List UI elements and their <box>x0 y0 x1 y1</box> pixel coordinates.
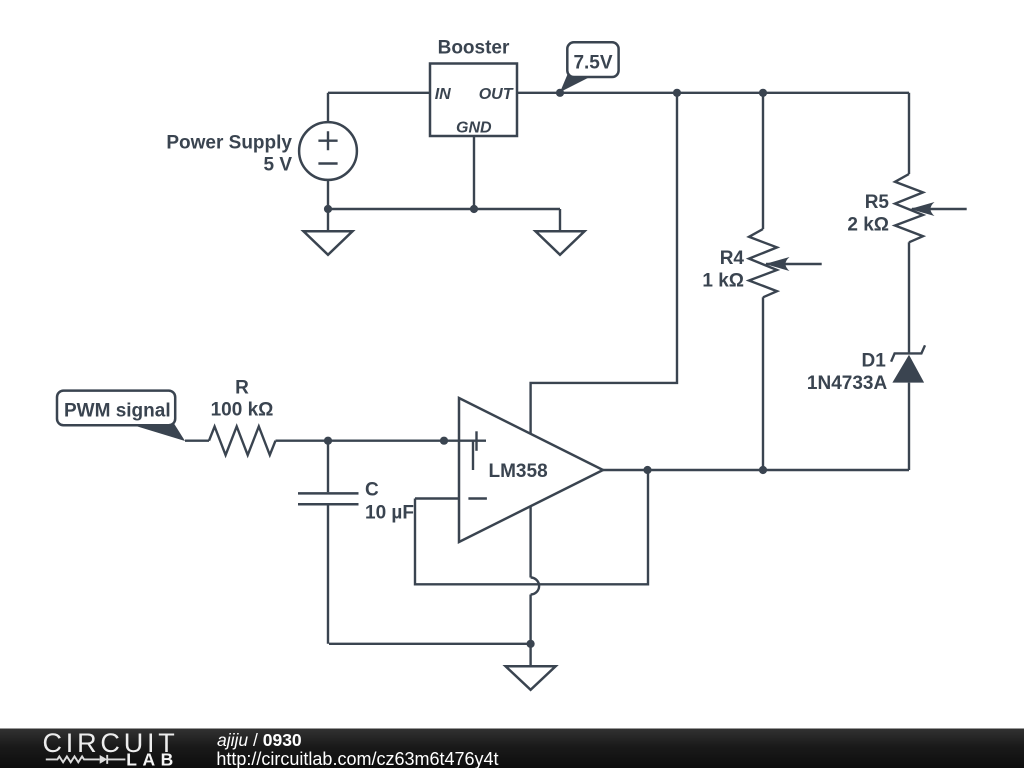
node bottom ground <box>527 640 535 648</box>
svg-text:100 kΩ: 100 kΩ <box>211 400 274 421</box>
svg-text:PWM signal: PWM signal <box>64 401 171 422</box>
wire opamp V- upper <box>529 507 531 578</box>
resistor R5 <box>847 174 966 242</box>
wire PWM lead <box>185 440 209 442</box>
net flag 7.5V <box>560 42 619 92</box>
CircuitLab logo <box>43 728 179 768</box>
node R4-output <box>759 466 767 474</box>
svg-text:GND: GND <box>456 120 492 137</box>
svg-text:http://circuitlab.com/cz63m6t4: http://circuitlab.com/cz63m6t476y4t <box>216 749 498 768</box>
wire supply bottom lead <box>327 180 329 232</box>
wire R to opamp <box>276 440 487 442</box>
Booster U1 <box>430 38 517 137</box>
resistor R <box>209 378 276 456</box>
svg-text:2 kΩ: 2 kΩ <box>847 215 889 236</box>
svg-text:1N4733A: 1N4733A <box>807 373 888 394</box>
wire ground lead bottom <box>529 644 531 667</box>
wire top rail <box>517 92 909 94</box>
svg-text:5 V: 5 V <box>263 155 292 176</box>
wire R5 top lead <box>908 93 910 174</box>
wire output rail <box>603 469 909 471</box>
wire feedback loop <box>415 470 648 584</box>
svg-text:IN: IN <box>435 86 451 103</box>
svg-text:R4: R4 <box>720 248 745 269</box>
svg-text:R5: R5 <box>865 192 890 213</box>
svg-text:LM358: LM358 <box>489 461 548 482</box>
op-amp U2 LM358 <box>459 398 603 542</box>
wire R4 bottom lead <box>762 297 764 470</box>
svg-text:1 kΩ: 1 kΩ <box>702 271 744 292</box>
wire hop <box>531 578 540 595</box>
wire booster GND lead <box>473 136 475 209</box>
svg-text:7.5V: 7.5V <box>573 53 612 74</box>
svg-text:C: C <box>365 480 379 501</box>
power supply V1 <box>166 122 357 180</box>
node feedback-output <box>643 466 651 474</box>
svg-text:Booster: Booster <box>438 38 510 59</box>
wire R5 bottom lead <box>908 242 910 353</box>
svg-text:D1: D1 <box>862 351 887 372</box>
capacitor C <box>298 441 414 644</box>
node C tap <box>324 437 332 445</box>
wire ground bus <box>328 208 560 210</box>
svg-text:ajiju / 0930: ajiju / 0930 <box>217 730 302 750</box>
node R4 tap <box>759 89 767 97</box>
wire opamp V+ drop <box>531 93 677 434</box>
node opamp supply tap <box>673 89 681 97</box>
wire D1 bottom lead <box>908 383 910 470</box>
wire bottom ground bus <box>329 643 531 645</box>
wire inverting input <box>415 497 459 499</box>
node 7.5V tap <box>556 89 564 97</box>
ground left <box>304 231 353 255</box>
node junction gnd-bus <box>470 205 478 213</box>
svg-text:10 µF: 10 µF <box>365 503 414 524</box>
footer bar <box>0 729 1024 768</box>
node opamp input <box>440 437 448 445</box>
zener diode D1 <box>807 345 925 394</box>
wire IN lead <box>328 92 430 94</box>
resistor R4 <box>702 229 821 297</box>
node junction supply-gnd <box>324 205 332 213</box>
svg-text:OUT: OUT <box>479 86 514 103</box>
wire opamp V- lower <box>529 595 531 644</box>
ground bottom <box>506 666 556 690</box>
wire R4 top lead <box>762 93 764 229</box>
ground right <box>536 231 585 255</box>
svg-text:Power Supply: Power Supply <box>166 132 292 153</box>
svg-text:R: R <box>235 378 249 399</box>
wire right ground lead <box>559 209 561 231</box>
svg-text:LAB: LAB <box>126 750 178 768</box>
wire supply top lead <box>327 93 329 122</box>
net flag PWM signal <box>57 391 185 441</box>
